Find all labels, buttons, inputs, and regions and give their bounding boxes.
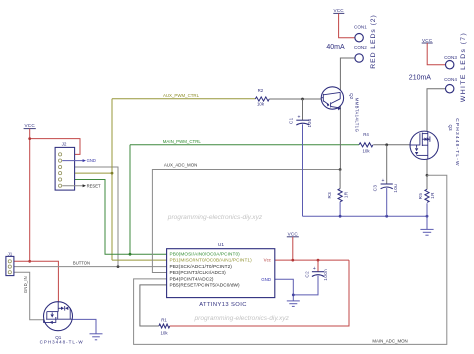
junction blue R5 (426, 215, 429, 218)
junction base/C1 (301, 98, 304, 101)
wire red branch to J2 pin1 (30, 139, 80, 155)
resistor R3 (338, 189, 342, 202)
wire R3 bottom to GND rail (339, 202, 341, 217)
junction grey BUTTON (117, 265, 120, 268)
IC U1 ATTINY13 (167, 242, 275, 308)
junction olive (111, 172, 114, 175)
svg-text:CON1: CON1 (354, 25, 367, 30)
capacitor C3 (373, 145, 398, 216)
svg-text:GND_IN: GND_IN (23, 276, 28, 293)
svg-text:GND: GND (261, 277, 271, 282)
svg-text:PB3(PCINT3/CLKI/ADC3): PB3(PCINT3/CLKI/ADC3) (170, 270, 227, 275)
wire R4 to Q3 gate (373, 144, 410, 146)
svg-text:100n: 100n (323, 269, 328, 281)
svg-text:R2: R2 (258, 88, 264, 93)
svg-text:R4: R4 (363, 132, 369, 137)
svg-text:programming-electronics-diy.xy: programming-electronics-diy.xyz (193, 315, 289, 322)
connector CON4 (446, 85, 454, 93)
wire PB5 to R1 (140, 285, 167, 326)
svg-text:J2: J2 (62, 142, 67, 147)
svg-text:U1: U1 (218, 242, 224, 248)
svg-text:WHITE LEDs (7): WHITE LEDs (7) (460, 32, 467, 102)
wire AUX_PWM_CTRL horizontal to R2 (112, 98, 255, 100)
svg-text:MMBTA14LT1G: MMBTA14LT1G (355, 98, 360, 133)
svg-text:CPH3448-TL-W: CPH3448-TL-W (40, 340, 84, 345)
svg-text:PB4(PCINT4/ADC2): PB4(PCINT4/ADC2) (170, 276, 214, 281)
transistor Q3 (410, 118, 460, 167)
wire R5 top lead (426, 175, 428, 189)
wire GND rail blue (303, 215, 428, 217)
svg-text:MAIN_ADC_MON: MAIN_ADC_MON (372, 339, 407, 344)
svg-text:BUTTON: BUTTON (73, 261, 90, 266)
junction red VCC IC (291, 259, 294, 262)
svg-text:C3: C3 (373, 185, 378, 192)
wire R3 top lead (339, 170, 341, 189)
svg-text:AUX_ADC_MON: AUX_ADC_MON (164, 163, 197, 168)
net AUX_PWM_CTRL olive vertical (111, 99, 113, 260)
wire CON4 to Q3 drain (427, 89, 446, 132)
wire Q3 source down (426, 159, 428, 175)
connector CON3 (446, 60, 454, 68)
svg-text:+: + (313, 266, 316, 272)
connector CON2 (355, 54, 363, 62)
svg-text:+: + (382, 178, 385, 184)
svg-text:10u: 10u (307, 119, 312, 128)
wire BUTTON grey J1 pin2 to PB2 (14, 266, 167, 268)
svg-text:10k: 10k (160, 331, 168, 336)
svg-text:PB1(MISO/INT0/OC0B/AIN1/PCINT1: PB1(MISO/INT0/OC0B/AIN1/PCINT1) (170, 258, 253, 263)
junction Q3 source (426, 174, 429, 177)
wire MAIN_PWM_CTRL horizontal to R4 (130, 144, 359, 146)
svg-text:CON4: CON4 (444, 77, 457, 82)
junction green (129, 253, 132, 256)
svg-text:GND: GND (87, 158, 96, 163)
wire Q1 source to ground (73, 319, 97, 333)
wire J2 pin5 to PB0 green (62, 180, 166, 255)
svg-text:PB5(RESET/PCINT5/ADC0/dW): PB5(RESET/PCINT5/ADC0/dW) (170, 283, 241, 288)
global label RESET (83, 184, 86, 187)
ground symbol IC (287, 301, 300, 307)
resistor R4 (359, 143, 373, 147)
svg-text:AUX_PWM_CTRL: AUX_PWM_CTRL (163, 93, 200, 98)
junction red C2 (317, 259, 320, 262)
svg-text:10k: 10k (362, 148, 370, 153)
power flag VCC top-left (24, 123, 36, 128)
capacitor C2 (293, 260, 328, 295)
wire CON2 to Q2 collector (340, 58, 355, 92)
junction red at J1 pin1 row (28, 260, 31, 263)
transistor Q2 (321, 87, 359, 132)
wire VCC vertical red left (29, 129, 31, 262)
svg-text:RESET: RESET (87, 183, 101, 188)
svg-text:VCC: VCC (422, 38, 433, 43)
svg-text:C1: C1 (288, 117, 293, 124)
wire olive to PB1 (112, 259, 167, 261)
svg-text:RED LEDs (2): RED LEDs (2) (370, 14, 377, 68)
power flag VCC above IC (287, 231, 299, 260)
svg-text:R5: R5 (418, 193, 423, 200)
capacitor C1 (288, 99, 312, 216)
wire Q2 emitter down (339, 106, 341, 170)
svg-text:CON3: CON3 (444, 55, 457, 60)
svg-text:40mA: 40mA (326, 44, 345, 51)
transistor Q1 (40, 302, 84, 345)
wire grey J2 pin3 down to BUTTON (62, 167, 118, 267)
power flag VCC at CON3 (422, 38, 446, 65)
svg-text:VCC: VCC (288, 231, 299, 236)
connector J2 (55, 142, 75, 190)
connector CON1 (355, 34, 363, 42)
svg-text:VCC: VCC (25, 123, 36, 128)
wire R2 to Q2 base (269, 98, 322, 100)
wire J2 pin6 to RESET label (62, 185, 83, 187)
svg-text:CPH3448-TL-W: CPH3448-TL-W (454, 118, 460, 167)
junction R4/C3 (385, 143, 388, 146)
svg-text:210mA: 210mA (409, 74, 432, 81)
power flag VCC at CON1 (333, 8, 355, 38)
svg-text:1R: 1R (344, 191, 349, 198)
svg-text:PB0(MOSI/AIN0/OC0A/PCINT0): PB0(MOSI/AIN0/OC0A/PCINT0) (170, 252, 241, 257)
svg-text:C2: C2 (304, 271, 309, 278)
net MAIN_PWM_CTRL green vertical (129, 145, 131, 254)
junction blue GND (292, 294, 295, 297)
wire R5 bottom (426, 203, 428, 216)
global label GND (83, 159, 86, 162)
ground symbol Q1 (90, 334, 103, 340)
wire R1 to VCC red (170, 260, 349, 326)
junction AUX_ADC at R3 (339, 168, 342, 171)
wire IC GND pin (275, 279, 294, 301)
junction red at VCC branch (28, 137, 31, 140)
wire J2 pin2 to GND label (62, 160, 83, 162)
wire red J1 pin1 to Q1 drain (14, 261, 59, 311)
svg-text:+: + (298, 114, 301, 120)
svg-text:ATTINY13 SOIC: ATTINY13 SOIC (199, 302, 247, 308)
svg-text:Vcc: Vcc (264, 258, 272, 263)
svg-text:PB2(SCK/ADC1/T0/PCINT2): PB2(SCK/ADC1/T0/PCINT2) (170, 264, 233, 269)
svg-text:10k: 10k (257, 102, 265, 107)
svg-text:CON2: CON2 (354, 45, 367, 50)
junction blue C3 (385, 215, 388, 218)
resistor R2 (255, 97, 269, 101)
svg-text:MAIN_PWM_CTRL: MAIN_PWM_CTRL (163, 139, 202, 144)
net AUX_ADC_MON wire (152, 170, 340, 273)
svg-text:1R: 1R (430, 192, 435, 199)
svg-text:J1: J1 (7, 251, 12, 256)
junction blue R3 (339, 215, 342, 218)
svg-text:R1: R1 (161, 317, 167, 322)
ground symbol right (420, 216, 433, 235)
svg-text:R3: R3 (327, 192, 332, 199)
wire IC Vcc pin red (275, 259, 349, 261)
net MAIN_ADC_MON wire perimeter (134, 175, 447, 344)
svg-text:VCC: VCC (333, 8, 344, 13)
resistor R5 (425, 189, 429, 202)
svg-text:programming-electronics-diy.xy: programming-electronics-diy.xyz (167, 214, 263, 221)
connector J1 (6, 251, 14, 275)
resistor R1 (159, 324, 170, 328)
wire J2 pin4 to olive vertical (62, 172, 112, 174)
wire GND_IN J1 pin3 to Q1 gate (14, 272, 44, 320)
svg-text:Q3: Q3 (448, 124, 453, 131)
svg-text:10u: 10u (393, 184, 398, 193)
svg-text:Q2: Q2 (349, 93, 354, 100)
